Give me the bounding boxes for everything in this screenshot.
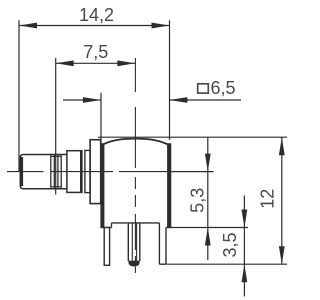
dimension 6,5 line right part bbox=[169, 99, 241, 101]
barrel nose outline bbox=[20, 155, 67, 189]
center pin rounded tip bbox=[128, 261, 139, 267]
svg-text:12: 12 bbox=[258, 189, 278, 209]
extension line bottom of 12 and 3,5 bbox=[167, 263, 288, 265]
svg-text:3,5: 3,5 bbox=[220, 232, 240, 257]
disc B bbox=[85, 150, 90, 192]
body right wall thick bbox=[167, 143, 171, 227]
extension line left of 6,5 bbox=[100, 93, 102, 145]
svg-text:14,2: 14,2 bbox=[79, 5, 114, 25]
svg-text:5,3: 5,3 bbox=[188, 188, 208, 213]
right leg bottom bbox=[159, 263, 166, 265]
dimension 5,3 line bbox=[207, 137, 209, 260]
arrow 14,2 left bbox=[19, 23, 37, 29]
flange bottom left segment bbox=[100, 227, 111, 229]
arrow 5,3 top pointing down bbox=[205, 154, 211, 172]
connector body drawing bbox=[20, 139, 171, 266]
dimension 6,5 line left part bbox=[63, 99, 101, 101]
arrow 3,5 top pointing down bbox=[242, 210, 248, 228]
center pin inner left bbox=[131, 223, 133, 261]
svg-text:6,5: 6,5 bbox=[211, 78, 236, 98]
centerline vertical axis bbox=[134, 58, 136, 273]
right leg right edge bbox=[165, 228, 167, 265]
body dome cap arc bbox=[101, 139, 170, 146]
arrow 6,5 left pointing right bbox=[83, 97, 101, 103]
arrowheads bbox=[19, 23, 285, 283]
snap groove ring lines bbox=[50, 155, 52, 188]
dimension 14,2 line bbox=[19, 25, 170, 27]
extension line left of 14,2 bbox=[18, 20, 20, 172]
left leg bbox=[104, 228, 109, 266]
arrow 12 bottom pointing down bbox=[279, 246, 285, 264]
centerline horizontal axis bbox=[7, 171, 170, 173]
extension line right of 14,2 bbox=[169, 20, 171, 140]
arrow 3,5 bottom pointing up bbox=[242, 264, 248, 282]
disc A bbox=[67, 151, 82, 193]
center pin inner right bbox=[136, 223, 138, 261]
dimension 3,5 line bbox=[243, 196, 245, 297]
right leg left edge bbox=[158, 223, 160, 264]
arrow 14,2 right bbox=[152, 23, 170, 29]
groove shoulder lines bbox=[51, 155, 61, 157]
extension line axis for 5,3 bbox=[172, 171, 214, 173]
extension line left of 7,5 bbox=[55, 58, 57, 195]
extension line top of 12 bbox=[98, 136, 287, 138]
center pin outer left bbox=[127, 223, 129, 261]
arrow 7,5 left bbox=[56, 60, 74, 66]
flange bottom right segment bbox=[166, 227, 171, 229]
plateau recess line bbox=[112, 222, 160, 224]
svg-text:7,5: 7,5 bbox=[83, 42, 108, 62]
arrow 5,3 bottom pointing up bbox=[205, 228, 211, 246]
body left wall thick bbox=[100, 143, 104, 227]
extension line pcb plane for 5,3 and 3,5 bbox=[171, 227, 248, 229]
disc C bbox=[90, 140, 101, 204]
disc A right face thick bbox=[80, 151, 82, 192]
center pin outer right bbox=[139, 223, 141, 261]
dimension 12 line bbox=[281, 137, 283, 264]
arrow 12 top pointing up bbox=[279, 137, 285, 155]
dimension 7,5 line bbox=[56, 62, 136, 64]
arrow 7,5 right bbox=[117, 60, 135, 66]
barrel nose left face thick bbox=[20, 157, 23, 186]
arrow 6,5 right pointing left bbox=[169, 97, 187, 103]
plateau left vertical bbox=[111, 223, 113, 228]
square symbol of 6,5 bbox=[198, 84, 209, 93]
